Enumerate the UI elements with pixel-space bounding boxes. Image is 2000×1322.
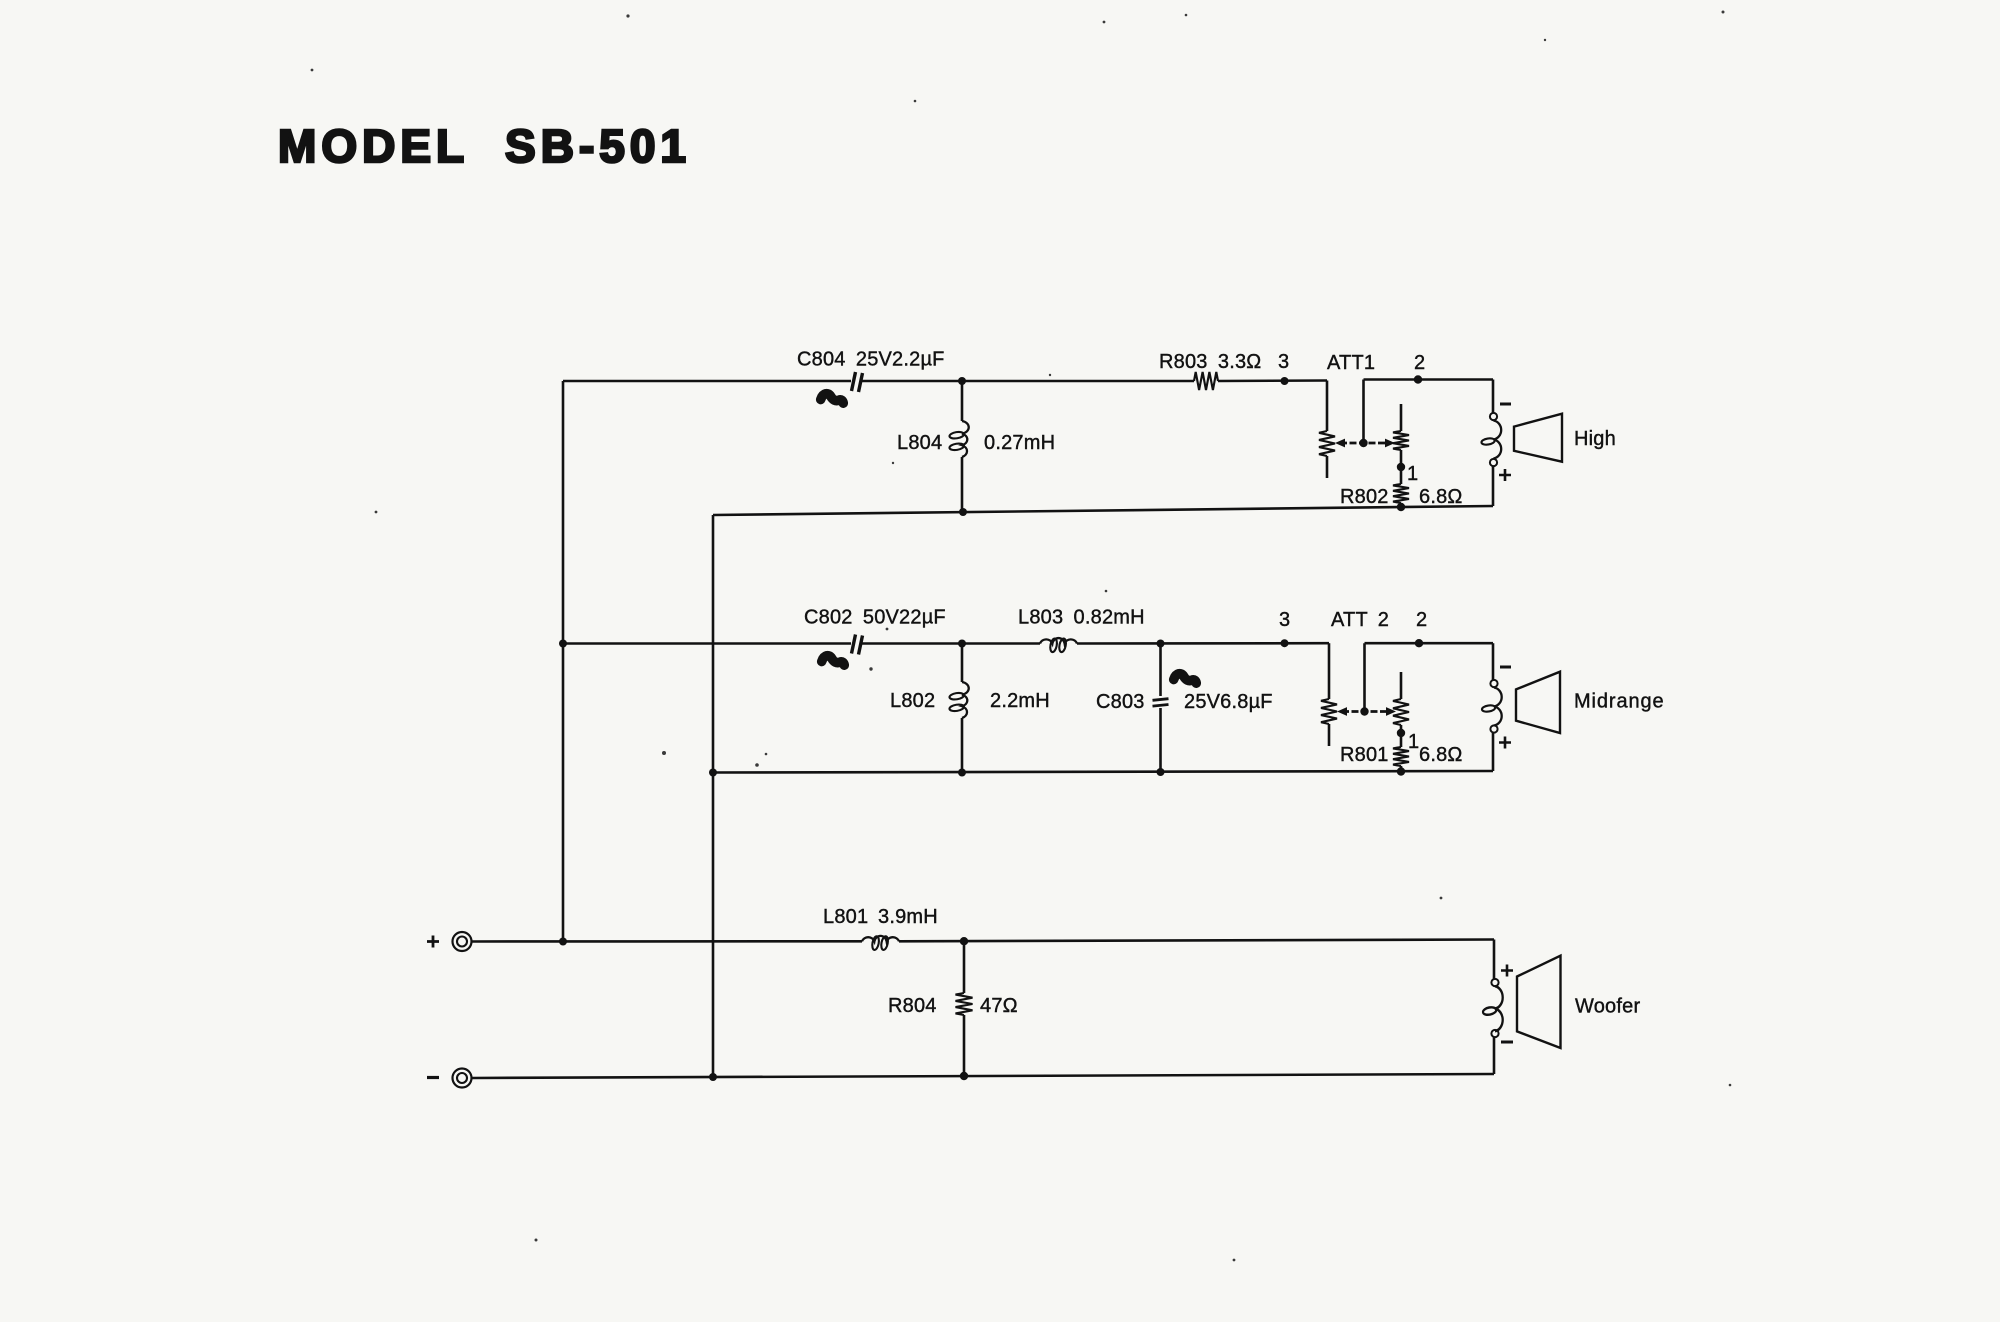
woofer terminal circle lower <box>1491 1030 1498 1037</box>
wire: R804 branch upper <box>963 941 966 993</box>
ATT1 wiper arrowheads <box>1335 439 1395 448</box>
wire: R801 to mid bottom rail <box>1400 766 1403 772</box>
minus sign at input <box>427 1076 439 1079</box>
node 3 junction dot (mid) <box>1281 639 1289 647</box>
polarity mark of C802 <box>822 656 845 666</box>
svg-text:2: 2 <box>1416 609 1427 631</box>
svg-text:3.9mH: 3.9mH <box>878 906 938 928</box>
junction dot L802 bottom on mid rail <box>958 769 966 777</box>
minus sign at high speaker <box>1500 403 1511 406</box>
ATT2 wiper junction dot <box>1360 707 1368 715</box>
capacitor C804 <box>852 372 863 392</box>
svg-text:3: 3 <box>1279 609 1290 631</box>
svg-text:2: 2 <box>1414 352 1425 374</box>
attenuator ATT1 right resistor element <box>1393 431 1409 450</box>
wire: ATT1 left branch lower stub <box>1326 456 1329 478</box>
wire: ATT2 wiper to node 2 rail <box>1363 643 1366 711</box>
node 1 junction dot (high) <box>1397 463 1405 471</box>
capacitor C803 <box>1153 699 1169 706</box>
junction dot mid rail on return riser <box>709 769 717 777</box>
wire: ATT1 right branch top stub <box>1400 404 1403 431</box>
svg-text:2.2mH: 2.2mH <box>990 690 1050 712</box>
high speaker horn <box>1514 414 1562 462</box>
svg-text:High: High <box>1574 428 1616 450</box>
polarity mark of C803 <box>1174 674 1197 684</box>
svg-text:L803 0.82mH: L803 0.82mH <box>1018 607 1145 629</box>
svg-text:Woofer: Woofer <box>1575 996 1640 1018</box>
mid speaker terminal circle upper <box>1490 680 1497 687</box>
wire: ATT2 right branch to node 1 <box>1400 725 1403 747</box>
wire: mid main, left of C802 <box>563 642 851 645</box>
polarity mark of C804 <box>821 394 844 404</box>
junction dot mid branch on + riser <box>559 640 567 648</box>
svg-text:L804: L804 <box>897 432 942 454</box>
woofer voice coil <box>1483 986 1503 1031</box>
junction dot L804 bottom on high rail <box>959 508 967 516</box>
mid speaker voice coil <box>1482 688 1502 726</box>
wire: high speaker to bottom rail <box>1492 466 1495 506</box>
svg-text:R802: R802 <box>1340 486 1389 508</box>
svg-text:6.8Ω: 6.8Ω <box>1419 744 1463 766</box>
wire: high speaker drop <box>1492 380 1495 414</box>
svg-text:ATT1: ATT1 <box>1327 352 1375 374</box>
wire: high main top, C804 to R803 <box>862 380 1194 383</box>
plus sign at woofer <box>1501 965 1513 977</box>
wire: - main rail <box>472 1074 1495 1078</box>
inductor L804 <box>949 421 969 457</box>
plus sign at mid speaker <box>1499 737 1511 749</box>
wire: ATT2 left branch drop <box>1328 643 1331 699</box>
junction dot C803 bottom on mid rail <box>1157 768 1165 776</box>
wire: mid node-2 segment to speaker <box>1365 642 1494 645</box>
wire: L802 branch upper <box>961 644 964 683</box>
wire: C803 branch upper <box>1159 644 1162 697</box>
wire: mid bottom rail <box>713 771 1493 773</box>
minus sign at mid speaker <box>1500 666 1511 669</box>
junction dot L802 top on mid main <box>958 640 966 648</box>
wire: ATT2 right branch top stub <box>1400 672 1403 699</box>
woofer horn <box>1517 956 1561 1048</box>
wire: R804 branch lower <box>963 1015 966 1076</box>
svg-text:R801: R801 <box>1340 744 1389 766</box>
wire: mid main, L803 to ATT2 <box>1077 642 1329 645</box>
resistor R803 <box>1194 372 1218 390</box>
attenuator ATT2 right resistor element <box>1393 699 1409 725</box>
wire: woofer to - main <box>1493 1037 1496 1074</box>
junction dot + riser on + main <box>559 938 567 946</box>
svg-text:C802 50V22µF: C802 50V22µF <box>804 607 946 629</box>
wire: ATT1 left branch drop <box>1326 381 1329 432</box>
woofer terminal circle upper <box>1491 979 1498 986</box>
attenuator ATT1 left resistor element <box>1319 431 1335 456</box>
ATT2 wiper dashed link <box>1342 710 1390 713</box>
wire: L804 branch upper <box>961 381 964 421</box>
node 3 junction dot (high) <box>1281 377 1289 385</box>
svg-text:C804 25V2.2µF: C804 25V2.2µF <box>797 349 945 371</box>
resistor R801 <box>1393 747 1409 766</box>
wire: high main top, R803 to ATT1 <box>1218 379 1327 382</box>
svg-text:L802: L802 <box>890 690 935 712</box>
svg-text:1: 1 <box>1407 463 1418 485</box>
wire: + feed vertical riser x=563 <box>562 381 565 942</box>
svg-text:C803: C803 <box>1096 691 1145 713</box>
inductor L802 <box>949 682 969 718</box>
wire: C803 branch lower <box>1159 708 1162 772</box>
wire: high main top, left of C804 <box>563 380 851 383</box>
minus sign at woofer <box>1501 1041 1513 1044</box>
svg-text:1: 1 <box>1408 731 1419 753</box>
junction dot R804 top on + main <box>960 937 968 945</box>
attenuator ATT2 left resistor element <box>1321 699 1337 724</box>
high speaker terminal circle upper <box>1490 413 1497 420</box>
svg-text:R804: R804 <box>888 995 937 1017</box>
high speaker voice coil <box>1481 421 1501 459</box>
ATT2 wiper arrowheads <box>1337 707 1396 716</box>
input terminal + <box>453 932 472 951</box>
ATT1 wiper dashed link <box>1340 442 1388 445</box>
ATT1 wiper junction dot <box>1359 439 1367 447</box>
capacitor C802 <box>852 635 863 655</box>
svg-text:25V6.8µF: 25V6.8µF <box>1184 691 1273 713</box>
inductor L803 <box>1040 638 1077 653</box>
mid speaker terminal circle lower <box>1490 725 1497 732</box>
input terminal - <box>453 1069 472 1088</box>
wire: ATT2 left branch lower stub <box>1328 724 1331 746</box>
svg-text:Midrange: Midrange <box>1574 691 1665 713</box>
junction dot R804 bottom on - main <box>960 1072 968 1080</box>
svg-text:MODEL SB-501: MODEL SB-501 <box>278 120 691 172</box>
junction dot L804 top on high main <box>958 377 966 385</box>
node 2 junction dot (mid) <box>1415 639 1423 647</box>
inductor L801 <box>862 936 899 951</box>
wire: + main, terminal to L801 <box>472 940 863 943</box>
svg-text:ATT 2: ATT 2 <box>1331 609 1389 631</box>
resistor R802 <box>1393 484 1409 503</box>
svg-text:L801: L801 <box>823 906 868 928</box>
wire: mid speaker to bottom rail <box>1492 733 1495 772</box>
wire: ATT1 right branch to node 1 <box>1400 450 1403 484</box>
svg-text:3: 3 <box>1278 351 1289 373</box>
junction dot R802 bottom on high rail <box>1397 503 1405 511</box>
wire: mid main, C802 to L803 <box>862 642 1040 645</box>
svg-text:R803 3.3Ω: R803 3.3Ω <box>1159 351 1261 373</box>
wire: woofer drop from + main <box>1493 940 1496 980</box>
wire: L802 branch lower <box>961 718 964 773</box>
junction dot C803 top on mid main <box>1157 640 1165 648</box>
mid speaker horn <box>1516 672 1560 733</box>
junction dot return riser on - main <box>709 1073 717 1081</box>
node 2 junction dot (high) <box>1414 375 1422 383</box>
wire: mid speaker drop <box>1492 643 1495 680</box>
wire: ATT1 wiper to node 2 rail <box>1362 380 1365 444</box>
wire: L804 branch lower <box>961 457 964 512</box>
svg-text:47Ω: 47Ω <box>980 995 1018 1017</box>
svg-text:6.8Ω: 6.8Ω <box>1419 486 1463 508</box>
node 1 junction dot (mid) <box>1397 729 1405 737</box>
svg-text:0.27mH: 0.27mH <box>984 432 1055 454</box>
plus sign at input <box>427 936 439 948</box>
resistor R804 <box>956 993 973 1015</box>
wire: R802 to high bottom rail <box>1400 503 1403 509</box>
wire: high node-2 segment to speaker <box>1364 378 1494 381</box>
wire: return vertical riser x=713 <box>712 515 715 1077</box>
plus sign at high speaker <box>1499 469 1511 481</box>
wire: high bottom rail <box>713 506 1493 515</box>
high speaker terminal circle lower <box>1490 459 1497 466</box>
wire: + main, L801 to woofer <box>899 940 1494 942</box>
junction dot R801 bottom on mid rail <box>1397 767 1405 775</box>
